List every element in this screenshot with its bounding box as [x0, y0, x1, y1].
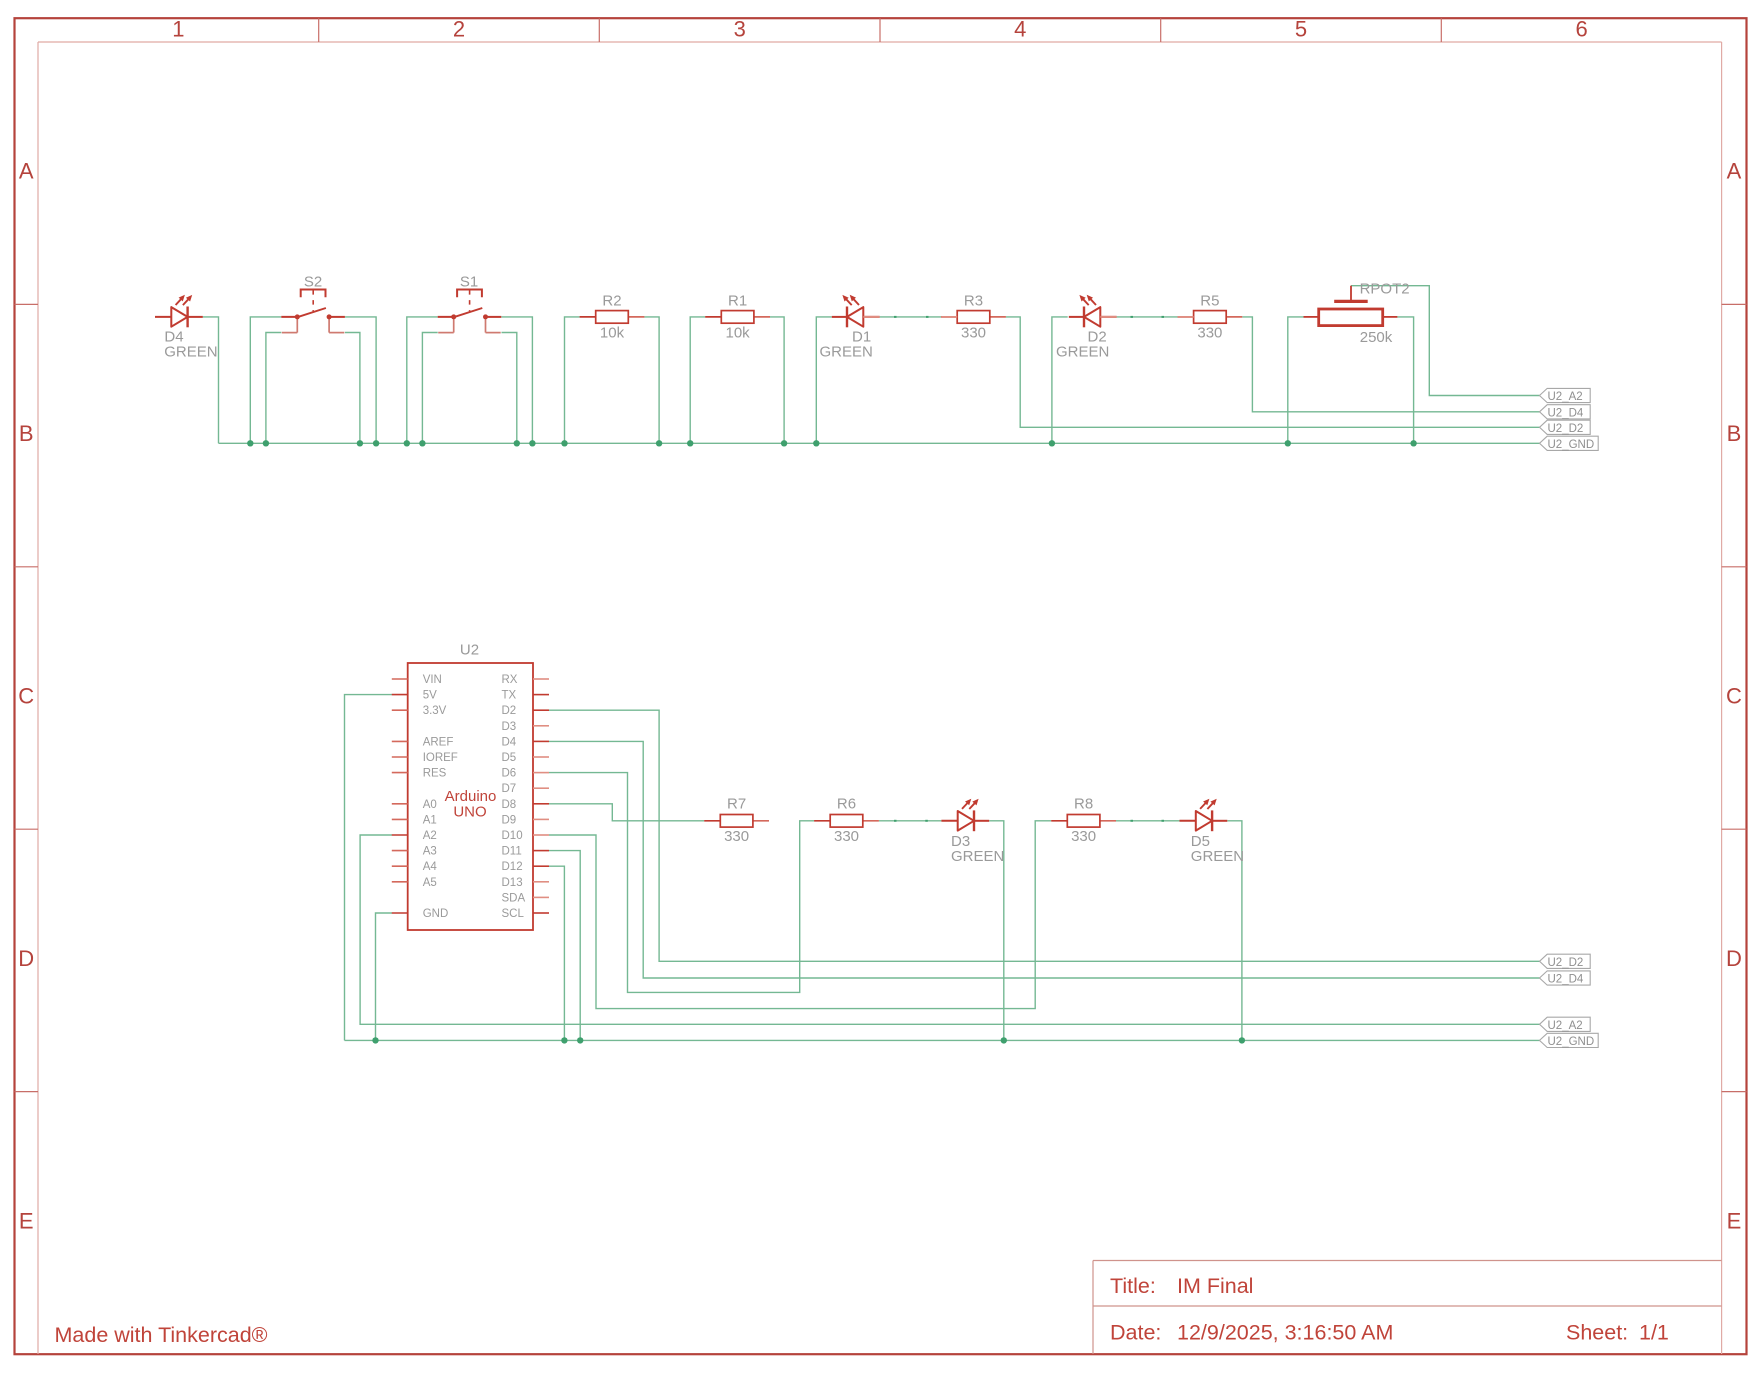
svg-text:S2: S2 — [304, 274, 322, 291]
wire: R1 left to GND bus — [690, 317, 705, 443]
wire: U2 D10 to R8 — [549, 821, 1051, 1009]
wire: D3 cathode to GND bus — [989, 821, 1004, 1041]
junction at x=816.3 on GND bus (top) — [813, 440, 819, 446]
wire: D4 cathode to GND bus — [203, 317, 219, 443]
wire: D2 cathode to GND bus — [1052, 317, 1068, 443]
svg-text:RPOT2: RPOT2 — [1360, 281, 1410, 298]
U2 pin VIN — [392, 674, 442, 686]
svg-text:330: 330 — [1071, 828, 1096, 845]
svg-text:R2: R2 — [602, 293, 621, 310]
svg-text:Date:: Date: — [1110, 1321, 1161, 1345]
svg-text:A3: A3 — [423, 846, 437, 858]
svg-text:A: A — [19, 159, 34, 184]
net flag U2_A2 (top) — [1540, 388, 1591, 403]
wire: D2 anode to R5 — [1117, 316, 1178, 318]
svg-text:D2: D2 — [502, 705, 517, 717]
U2 pin TX — [502, 690, 550, 702]
wire: U2 D6 to R6 — [549, 773, 814, 993]
svg-text:Arduino: Arduino — [445, 788, 497, 805]
wire: S1 pin1 to GND bus — [407, 317, 438, 443]
svg-text:D11: D11 — [502, 846, 522, 858]
U2 pin D10 — [502, 830, 550, 842]
junction at x=1413.6 on GND bus (top) — [1410, 440, 1416, 446]
wire: D1 cathode to GND bus — [816, 317, 832, 443]
resistor R6 — [814, 796, 879, 846]
resistor R3 — [941, 293, 1006, 342]
junction at x=1287.8 on GND bus (top) — [1285, 440, 1291, 446]
svg-text:6: 6 — [1575, 16, 1587, 41]
junction at x=1241.9 on GND bus (bottom) — [1239, 1037, 1245, 1043]
resistor R1 — [705, 293, 770, 342]
wire: D1 anode to R3 — [880, 316, 942, 318]
net flag U2_GND (top) — [1540, 436, 1599, 451]
svg-text:3: 3 — [734, 16, 746, 41]
wire: S1 pin4 to GND bus — [502, 333, 517, 444]
svg-text:330: 330 — [1197, 324, 1222, 341]
svg-text:12/9/2025, 3:16:50 AM: 12/9/2025, 3:16:50 AM — [1177, 1321, 1393, 1345]
svg-text:D9: D9 — [502, 814, 517, 826]
svg-text:TX: TX — [502, 690, 517, 702]
LED D5 — [1180, 799, 1245, 865]
svg-text:1: 1 — [172, 16, 184, 41]
svg-text:C: C — [18, 684, 34, 709]
svg-text:Sheet:: Sheet: — [1566, 1321, 1628, 1345]
svg-text:GREEN: GREEN — [164, 344, 217, 361]
junction at x=1051.9 on GND bus (top) — [1049, 440, 1055, 446]
wire: U2 D12 to GND bus — [549, 866, 564, 1040]
net flag U2_A2 (bottom) — [1540, 1017, 1591, 1032]
svg-text:A4: A4 — [423, 861, 438, 873]
wire: RPOT2 pin3 to GND bus — [1397, 317, 1413, 443]
svg-text:S1: S1 — [460, 274, 478, 291]
U2 pin SDA — [502, 892, 550, 904]
wire: S1 pin3 to GND bus — [502, 317, 533, 443]
svg-text:AREF: AREF — [423, 736, 454, 748]
svg-text:5: 5 — [1295, 16, 1307, 41]
U2 pin 5V — [392, 690, 437, 702]
svg-text:D13: D13 — [502, 877, 523, 889]
net flag U2_D4 (top) — [1540, 405, 1591, 420]
wire: S1 pin2 to GND bus — [422, 333, 437, 444]
U2 pin RX — [502, 674, 550, 686]
U2 pin D11 — [502, 846, 550, 858]
svg-text:GREEN: GREEN — [1056, 344, 1109, 361]
U2 pin D8 — [502, 799, 550, 811]
wire: RPOT2 pin1 to GND bus — [1288, 317, 1304, 443]
svg-text:R5: R5 — [1200, 293, 1219, 310]
junction at x=376.1 on GND bus (top) — [373, 440, 379, 446]
U2 pin A2 — [392, 830, 437, 842]
svg-text:250k: 250k — [1360, 329, 1393, 346]
U2 pin D6 — [502, 768, 550, 780]
U2 pin A3 — [392, 846, 437, 858]
wire: R8 to D5 anode — [1116, 820, 1180, 822]
svg-text:GREEN: GREEN — [820, 344, 873, 361]
LED D3 — [941, 799, 1004, 865]
junction at x=250.3 on GND bus (top) — [247, 440, 253, 446]
net flag U2_GND (bottom) — [1540, 1033, 1599, 1048]
svg-text:VIN: VIN — [423, 674, 442, 686]
Arduino UNO U2 — [408, 642, 533, 931]
wire: U2 D11 to GND bus — [549, 851, 580, 1041]
svg-text:E: E — [19, 1208, 34, 1233]
svg-text:D7: D7 — [502, 783, 517, 795]
junction at x=564.4 on GND bus (bottom) — [561, 1037, 567, 1043]
svg-text:3.3V: 3.3V — [423, 705, 447, 717]
switch S2 — [281, 274, 345, 333]
wire: S2 pin3 to GND bus — [345, 317, 376, 443]
wire: R3 to U2_D2 flag — [1006, 317, 1540, 427]
svg-text:Title:: Title: — [1110, 1274, 1156, 1298]
svg-text:E: E — [1727, 1208, 1742, 1233]
U2 pin A5 — [392, 877, 437, 889]
junction at x=784.1 on GND bus (top) — [781, 440, 787, 446]
svg-text:U2_A2: U2_A2 — [1548, 1020, 1583, 1032]
svg-text:D10: D10 — [502, 830, 523, 842]
svg-text:5V: 5V — [423, 690, 437, 702]
wire: U2 D8 to R7 — [549, 804, 704, 821]
svg-text:Made with Tinkercad®: Made with Tinkercad® — [55, 1323, 268, 1347]
LED D1 — [820, 295, 880, 361]
U2 pin D3 — [502, 721, 550, 733]
svg-text:A: A — [1727, 159, 1742, 184]
wire: U2 GND pin to GND bus — [376, 913, 393, 1040]
U2 pin D9 — [502, 814, 550, 826]
wire: R1 right to GND bus — [770, 317, 784, 443]
junction at x=359.9 on GND bus (top) — [357, 440, 363, 446]
junction at x=422.4 on GND bus (top) — [419, 440, 425, 446]
U2 pin 3.3V — [392, 705, 447, 717]
junction at x=265.9 on GND bus (top) — [263, 440, 269, 446]
wire: R6 to D3 anode — [879, 820, 942, 822]
svg-text:10k: 10k — [726, 324, 751, 341]
svg-text:D3: D3 — [502, 721, 517, 733]
svg-text:U2_GND: U2_GND — [1548, 439, 1595, 451]
junction at x=580.2 on GND bus (bottom) — [577, 1037, 583, 1043]
resistor R7 — [704, 796, 769, 846]
potentiometer RPOT2 — [1304, 281, 1410, 347]
svg-text:R7: R7 — [727, 796, 746, 813]
wire: S2 pin1 to GND bus — [250, 317, 281, 443]
wire: U2 A2 to U2_A2 flag — [360, 835, 1539, 1024]
wire: D5 cathode to GND bus — [1227, 821, 1242, 1041]
wire: R2 right to GND bus — [644, 317, 659, 443]
svg-text:A5: A5 — [423, 877, 437, 889]
resistor R5 — [1178, 293, 1243, 342]
U2 pin GND — [392, 908, 448, 920]
U2 pin A0 — [392, 799, 437, 811]
svg-text:U2_A2: U2_A2 — [1548, 391, 1583, 403]
svg-text:A1: A1 — [423, 814, 437, 826]
U2 pin A1 — [392, 814, 437, 826]
svg-text:A2: A2 — [423, 830, 437, 842]
resistor R8 — [1051, 796, 1116, 846]
U2 pin D4 — [502, 736, 550, 748]
U2 pin D5 — [502, 752, 550, 764]
junction at x=1003.8 on GND bus (bottom) — [1001, 1037, 1007, 1043]
net flag U2_D2 (bottom) — [1540, 954, 1591, 969]
net flag U2_D2 (top) — [1540, 420, 1591, 435]
U2 pin D2 — [502, 705, 550, 717]
U2 pin SCL — [502, 908, 550, 920]
svg-text:B: B — [1727, 421, 1742, 446]
svg-text:10k: 10k — [600, 324, 625, 341]
svg-text:330: 330 — [834, 828, 859, 845]
wire: RPOT2 wiper to U2_A2 flag — [1351, 286, 1540, 396]
svg-text:IOREF: IOREF — [423, 752, 458, 764]
U2 pin IOREF — [392, 752, 458, 764]
wire: U2 5V to GND bus (bottom) — [345, 695, 393, 1041]
svg-text:D4: D4 — [502, 736, 517, 748]
svg-text:C: C — [1726, 684, 1742, 709]
junction at x=659.1 on GND bus (top) — [656, 440, 662, 446]
svg-text:A0: A0 — [423, 799, 437, 811]
junction at x=406.8 on GND bus (top) — [404, 440, 410, 446]
svg-text:330: 330 — [961, 324, 986, 341]
svg-text:U2_D4: U2_D4 — [1548, 974, 1584, 986]
svg-text:2: 2 — [453, 16, 465, 41]
junction at x=375.5 on GND bus (bottom) — [372, 1037, 378, 1043]
svg-text:RES: RES — [423, 768, 447, 780]
U2 pin A4 — [392, 861, 438, 873]
svg-text:U2_GND: U2_GND — [1548, 1036, 1595, 1048]
svg-text:1/1: 1/1 — [1639, 1321, 1669, 1345]
svg-text:U2_D4: U2_D4 — [1548, 407, 1584, 419]
wire: S2 pin2 to GND bus — [266, 333, 281, 444]
U2 pin D13 — [502, 877, 550, 889]
LED D4 — [155, 295, 218, 361]
svg-text:GREEN: GREEN — [951, 848, 1004, 865]
svg-text:R6: R6 — [837, 796, 856, 813]
net flag U2_D4 (bottom) — [1540, 971, 1591, 986]
LED D2 — [1056, 295, 1117, 361]
wire: U2 D4 to U2_D4 flag — [549, 741, 1540, 978]
svg-text:D8: D8 — [502, 799, 517, 811]
svg-text:4: 4 — [1014, 16, 1026, 41]
wire: GND bus (top section) — [219, 442, 1540, 444]
svg-text:B: B — [19, 421, 34, 446]
junction at x=532.4 on GND bus (top) — [529, 440, 535, 446]
svg-text:D: D — [1726, 946, 1742, 971]
U2 pin RES — [392, 768, 447, 780]
svg-text:R8: R8 — [1074, 796, 1093, 813]
svg-text:D: D — [18, 946, 34, 971]
wire: U2 D2 to U2_D2 flag — [549, 710, 1540, 961]
svg-text:R3: R3 — [964, 293, 983, 310]
junction at x=690.2 on GND bus (top) — [687, 440, 693, 446]
U2 pin AREF — [392, 736, 454, 748]
junction at x=564.5 on GND bus (top) — [561, 440, 567, 446]
svg-text:U2: U2 — [460, 642, 479, 659]
switch S1 — [438, 274, 502, 333]
svg-text:D5: D5 — [502, 752, 517, 764]
U2 pin D12 — [502, 861, 550, 873]
svg-text:R1: R1 — [728, 293, 747, 310]
svg-text:GREEN: GREEN — [1191, 848, 1244, 865]
wire: R5 to U2_D4 flag — [1242, 317, 1539, 412]
wire: R2 left to GND bus — [565, 317, 580, 443]
svg-text:330: 330 — [724, 828, 749, 845]
svg-text:D6: D6 — [502, 768, 517, 780]
wire: S2 pin4 to GND bus — [345, 333, 360, 444]
svg-text:IM Final: IM Final — [1177, 1274, 1253, 1298]
svg-text:U2_D2: U2_D2 — [1548, 423, 1584, 435]
junction at x=516.8 on GND bus (top) — [514, 440, 520, 446]
svg-text:U2_D2: U2_D2 — [1548, 957, 1584, 969]
svg-text:RX: RX — [502, 674, 518, 686]
svg-text:SDA: SDA — [502, 892, 526, 904]
wire: GND bus (bottom section) — [345, 1039, 1540, 1041]
svg-text:SCL: SCL — [502, 908, 525, 920]
svg-text:UNO: UNO — [453, 804, 486, 821]
svg-text:GND: GND — [423, 908, 449, 920]
svg-text:D12: D12 — [502, 861, 523, 873]
U2 pin D7 — [502, 783, 550, 795]
resistor R2 — [580, 293, 645, 342]
